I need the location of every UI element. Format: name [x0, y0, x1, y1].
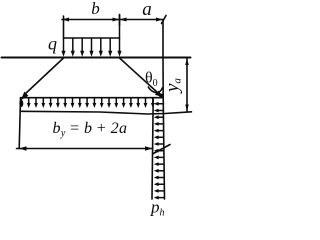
- spread base bottom line: [21, 111, 192, 114]
- wall left edge: [152, 98, 153, 199]
- vertical line from a to wall right edge: [163, 20, 165, 200]
- dimension y_a: [185, 58, 189, 112]
- load q top line: [64, 37, 120, 39]
- ground surface line: [2, 57, 191, 59]
- spread base top line: [21, 97, 164, 99]
- svg-text:b: b: [91, 0, 100, 18]
- lateral pressure p_h arrows: [154, 102, 164, 200]
- right spread line: [120, 58, 164, 97]
- dimension line a: [120, 15, 167, 26]
- footing left edge: [19, 98, 20, 149]
- load q arrows: [61, 15, 121, 57]
- dimension b_y bottom line: [17, 146, 153, 151]
- svg-text:q: q: [48, 34, 57, 54]
- angle theta0 arc: [148, 87, 162, 93]
- sole pressure arrows: [27, 98, 155, 108]
- section slash on wall: [153, 145, 171, 155]
- extension line left of b: [63, 16, 65, 38]
- left spread line: [19, 58, 63, 107]
- svg-text:a: a: [142, 0, 152, 20]
- dimension line b: [62, 18, 120, 22]
